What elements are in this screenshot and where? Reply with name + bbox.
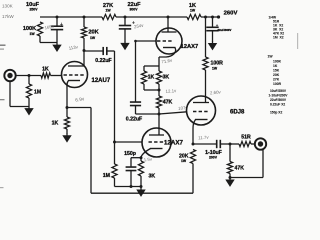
svg-text:0.22uF: 0.22uF bbox=[95, 58, 111, 64]
svg-text:1W: 1W bbox=[90, 36, 96, 40]
svg-text:200V: 200V bbox=[209, 156, 218, 160]
svg-text:0.22uF X2: 0.22uF X2 bbox=[270, 103, 285, 107]
svg-text:0.22uF: 0.22uF bbox=[126, 117, 142, 123]
svg-text:10uF/250V: 10uF/250V bbox=[270, 89, 287, 93]
svg-text:6DJ8: 6DJ8 bbox=[230, 109, 245, 115]
svg-text:11.7v: 11.7v bbox=[198, 135, 210, 141]
svg-text:100R: 100R bbox=[273, 82, 282, 86]
svg-text:1W: 1W bbox=[212, 67, 218, 71]
svg-text:1W: 1W bbox=[29, 32, 35, 36]
svg-text:1K: 1K bbox=[52, 121, 59, 127]
svg-text:1W: 1W bbox=[268, 55, 274, 59]
svg-text:1K: 1K bbox=[148, 75, 155, 81]
svg-text:20K: 20K bbox=[88, 30, 98, 36]
svg-text:100K: 100K bbox=[273, 60, 282, 64]
svg-text:47K: 47K bbox=[235, 166, 245, 172]
svg-text:20K: 20K bbox=[273, 73, 280, 77]
svg-text:1K: 1K bbox=[42, 66, 49, 72]
svg-text:1M: 1M bbox=[34, 89, 41, 95]
svg-text:17kW: 17kW bbox=[2, 14, 14, 19]
svg-text:51R: 51R bbox=[241, 134, 251, 140]
svg-text:150p X2: 150p X2 bbox=[270, 111, 282, 115]
svg-text:+: + bbox=[60, 22, 63, 28]
svg-text:300V: 300V bbox=[130, 8, 139, 12]
svg-text:47K: 47K bbox=[163, 100, 173, 106]
svg-text:12AX7: 12AX7 bbox=[164, 140, 183, 147]
svg-text:3K: 3K bbox=[148, 173, 155, 179]
svg-text:22uF/300V: 22uF/300V bbox=[218, 28, 232, 32]
svg-text:1-10uF/200V: 1-10uF/200V bbox=[269, 94, 289, 98]
svg-text:15K: 15K bbox=[273, 69, 280, 73]
svg-text:250V: 250V bbox=[30, 8, 39, 12]
svg-text:3K: 3K bbox=[162, 75, 169, 81]
svg-text:1W: 1W bbox=[181, 159, 187, 163]
svg-text:100R: 100R bbox=[211, 61, 224, 67]
svg-text:27K: 27K bbox=[273, 78, 280, 82]
svg-text:150p: 150p bbox=[124, 151, 136, 157]
svg-text:12AX7: 12AX7 bbox=[181, 44, 199, 50]
svg-text:130K: 130K bbox=[2, 4, 14, 9]
svg-text:22uF/300V: 22uF/300V bbox=[270, 98, 287, 102]
svg-text:12.1v: 12.1v bbox=[165, 88, 177, 94]
svg-text:1W: 1W bbox=[190, 8, 196, 12]
svg-text:12AU7: 12AU7 bbox=[92, 78, 111, 84]
svg-text:1K: 1K bbox=[273, 64, 278, 68]
svg-text:1M: 1M bbox=[103, 173, 110, 179]
svg-text:1M X2: 1M X2 bbox=[273, 35, 284, 39]
svg-text:1.5v: 1.5v bbox=[143, 157, 153, 163]
svg-text:260V: 260V bbox=[224, 11, 238, 17]
svg-text:1W: 1W bbox=[105, 8, 111, 12]
